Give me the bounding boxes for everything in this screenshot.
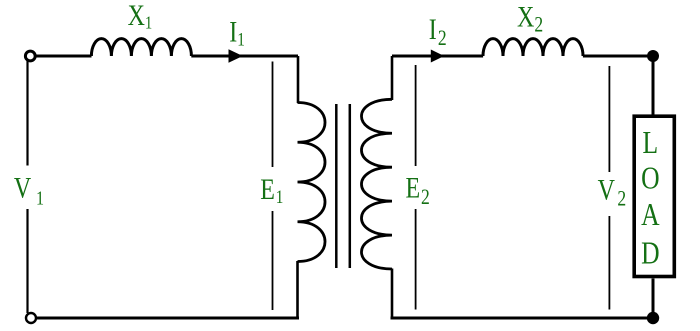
label V2 (598, 173, 627, 211)
wire: primary bottom horizontal (31, 317, 299, 320)
wire: secondary winding top vertical (391, 56, 394, 100)
svg-text:V1: V1 (14, 171, 44, 209)
svg-text:L: L (642, 125, 658, 160)
wire: top-left horizontal to X1 (36, 55, 92, 58)
transformer secondary winding (361, 99, 392, 269)
node: top-right junction dot (647, 50, 659, 62)
wire: primary top vertical down to winding (297, 56, 300, 103)
wire: left vertical lower segment (26, 209, 28, 313)
core line right (349, 104, 352, 268)
svg-text:D: D (641, 236, 659, 271)
wire: secondary winding bottom vertical (391, 269, 394, 319)
label X1 (128, 0, 153, 33)
wire: left vertical upper segment (26, 61, 28, 166)
core line left (335, 104, 338, 268)
wire: top-right node down to load (652, 56, 655, 115)
wire: X2 to top-right node (583, 55, 653, 58)
wire: load bottom to bottom-right node (652, 279, 655, 319)
svg-text:E1: E1 (260, 172, 283, 207)
wire: X1 to primary top corner (191, 55, 298, 58)
svg-text:I1: I1 (229, 15, 245, 50)
label V1 (14, 171, 44, 209)
transformer primary winding (298, 103, 326, 262)
arrow: current I2 (431, 50, 444, 63)
label X2 (517, 0, 543, 37)
label E2 (406, 171, 430, 210)
svg-text:A: A (641, 198, 660, 233)
svg-text:V2: V2 (598, 173, 627, 211)
wire: secondary top horizontal to X2 (392, 55, 483, 58)
svg-text:E2: E2 (406, 171, 430, 210)
load box (634, 116, 674, 276)
node: bottom-right junction dot (647, 312, 659, 324)
inductor X2 (483, 39, 583, 56)
node bar V2 lower (608, 216, 610, 310)
svg-text:X1: X1 (128, 0, 153, 33)
terminal: bottom-left open circle (26, 313, 36, 323)
node bar E2 upper (415, 65, 417, 166)
label LOAD L (642, 125, 658, 160)
arrow: current I1 (229, 49, 243, 63)
label LOAD D (641, 236, 659, 271)
node bar E2 lower (415, 209, 417, 310)
svg-text:X2: X2 (517, 0, 543, 37)
inductor X1 (91, 39, 191, 56)
label LOAD O (641, 161, 659, 196)
node bar E1 lower (272, 211, 274, 310)
label I1 (229, 15, 245, 50)
wire: secondary bottom horizontal (391, 317, 654, 320)
svg-text:O: O (641, 161, 659, 196)
svg-text:I2: I2 (429, 12, 447, 50)
label LOAD A (641, 198, 660, 233)
wire: primary winding bottom to bottom wire (296, 261, 299, 318)
label I2 (429, 12, 447, 50)
label E1 (260, 172, 283, 207)
node bar V2 upper (608, 66, 610, 172)
terminal: top-left open circle (25, 51, 35, 61)
node bar E1 upper (272, 62, 274, 168)
